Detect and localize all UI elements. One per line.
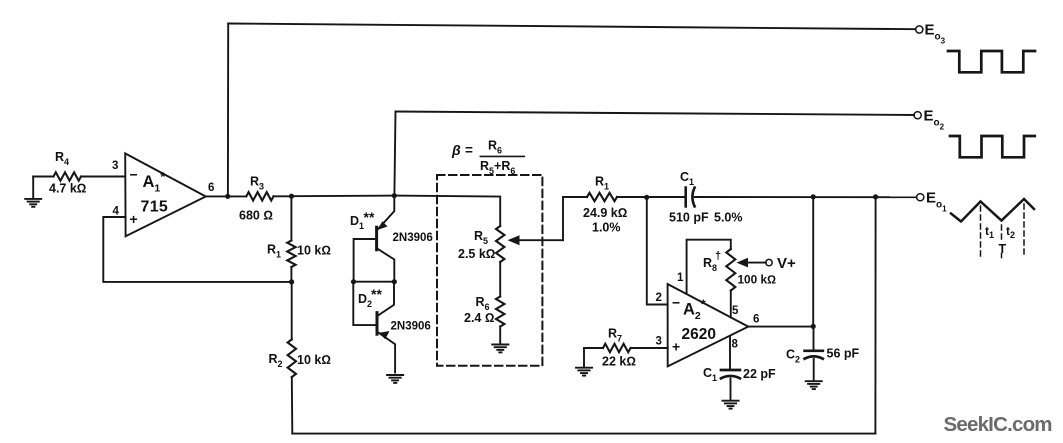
wire R2 down to bottom rail	[291, 377, 294, 434]
node B junction dot	[289, 279, 294, 284]
transistor Q2 D2 collector wire	[379, 282, 395, 316]
wire node J down to C2	[813, 326, 815, 350]
wire node J up to node H	[812, 197, 814, 327]
capacitor C1 510pF left plate	[684, 188, 687, 207]
svg-text:5: 5	[732, 305, 739, 317]
terminal Eo1	[917, 194, 924, 201]
transistor Q1 D1 2N3906 emitter wire	[379, 196, 395, 229]
transistor Q2 D2 base wire	[353, 282, 377, 325]
wire riser node D up to Eo2 line	[394, 112, 395, 196]
ground at R4 left	[25, 177, 41, 207]
waveform Eo2 square wave	[950, 136, 1035, 157]
node G junction dot	[644, 195, 649, 200]
capacitor C1 22pF bottom plate	[721, 376, 740, 378]
transistor Q2 D2 emitter wire	[378, 332, 395, 372]
ground at C2	[806, 381, 822, 389]
svg-text:β: β	[451, 142, 461, 158]
wire R1 to node B	[290, 267, 292, 282]
svg-text:+: +	[672, 339, 680, 355]
waveform Eo1 triangle wave	[951, 199, 1034, 222]
ground at R7	[576, 368, 592, 376]
svg-text:3: 3	[656, 336, 662, 348]
transistor Q1 D1 bar	[375, 227, 378, 250]
wire R7 ground stub	[583, 348, 585, 368]
node D junction dot	[392, 193, 397, 198]
wire C1 22pF to ground	[730, 379, 732, 401]
wire R3 to node C	[274, 195, 292, 197]
wire node B down to R2	[291, 282, 293, 340]
svg-text:2.4 Ω: 2.4 Ω	[464, 311, 494, 325]
wire A2 out to node J	[748, 326, 813, 328]
svg-text:C2: C2	[786, 348, 800, 365]
wire C2 to ground	[813, 359, 815, 381]
svg-text:SeekIC.com: SeekIC.com	[944, 413, 1052, 436]
wire bus node C to node D	[292, 195, 395, 198]
resistor R1 10k	[287, 241, 295, 268]
wire R7 to A2 pin3	[631, 347, 668, 349]
svg-text:3: 3	[112, 160, 118, 172]
svg-text:680 Ω: 680 Ω	[239, 209, 273, 223]
node A junction dot	[225, 194, 230, 199]
resistor R8 100k	[726, 249, 735, 291]
svg-text:R6: R6	[488, 139, 502, 156]
svg-text:R7: R7	[608, 327, 622, 344]
wire Eo3 top line	[228, 24, 915, 30]
node C junction dot	[289, 194, 294, 199]
arrowhead D1 emitter	[377, 221, 387, 230]
node H junction dot (C2 riser)	[811, 194, 816, 199]
svg-text:5.0%: 5.0%	[714, 211, 743, 225]
svg-text:**: **	[371, 286, 382, 302]
arrowhead D2 emitter	[379, 331, 390, 339]
resistor R4	[54, 172, 82, 180]
wire R6 to ground	[499, 327, 501, 345]
wire bottom rail	[292, 433, 875, 435]
wire wiper riser up to R1b	[562, 197, 564, 240]
ground at R6	[492, 345, 508, 353]
wire A2 pin1 up and over to R8 top	[687, 240, 731, 294]
wire bus into box to R5 top	[394, 196, 500, 226]
wire riser node A up to Eo3 line	[227, 24, 229, 197]
svg-text:R5: R5	[474, 229, 488, 246]
wire ground to R7	[584, 347, 603, 349]
svg-text:Eo3: Eo3	[925, 22, 946, 46]
svg-text:R3: R3	[250, 175, 264, 192]
capacitor C2 56pF top plate	[805, 349, 823, 352]
svg-text:6: 6	[753, 314, 759, 326]
wire A1 out to node A	[206, 195, 247, 197]
wire node C down to R1	[290, 196, 292, 240]
svg-text:2N3906: 2N3906	[391, 321, 431, 333]
wire right riser bottom rail to Eo1 line	[874, 197, 876, 434]
op-amp U2 A2 2620	[668, 284, 749, 366]
node J junction dot	[811, 324, 816, 329]
transistor Q1 D1 collector wire	[377, 249, 394, 282]
svg-text:R1: R1	[267, 243, 281, 260]
capacitor C1 510pF right plate	[692, 188, 694, 207]
resistor R6 2.4	[496, 297, 504, 327]
svg-text:=: =	[465, 143, 473, 158]
dashed box	[437, 175, 542, 366]
wire R5 to R6	[499, 262, 501, 297]
resistor R5 2.5k	[496, 226, 504, 262]
node E junction dot (bases)	[351, 279, 356, 284]
svg-text:R6: R6	[476, 295, 490, 312]
svg-text:−: −	[130, 167, 138, 183]
svg-text:Eo2: Eo2	[924, 108, 945, 132]
transistor Q2 D2 bar	[376, 313, 379, 335]
svg-text:510 pF: 510 pF	[669, 211, 709, 225]
svg-text:10 kΩ: 10 kΩ	[297, 244, 331, 258]
svg-text:2N3906: 2N3906	[393, 232, 433, 244]
dashed marker t end	[1023, 204, 1025, 256]
wire crossbar E to F	[354, 281, 395, 283]
ground at C1 22pF	[723, 401, 739, 409]
svg-text:10 kΩ: 10 kΩ	[297, 353, 331, 367]
wire ground to R4	[33, 176, 53, 178]
wiper arrow into R5	[517, 239, 563, 241]
svg-text:6: 6	[208, 182, 214, 194]
wire R1b to node G	[617, 196, 686, 198]
wire Eo2 top line	[396, 112, 915, 116]
wire R8 bottom to A2 pin5	[730, 291, 732, 318]
svg-text:4: 4	[113, 206, 120, 218]
wire node G down to A2 pin2	[647, 197, 668, 304]
svg-text:22 pF: 22 pF	[743, 367, 776, 381]
svg-text:t2: t2	[1006, 224, 1015, 240]
svg-text:4.7 kΩ: 4.7 kΩ	[49, 182, 86, 196]
svg-text:C1: C1	[680, 170, 694, 187]
dashed marker t start	[980, 206, 982, 256]
ground at D2 emitter	[387, 375, 403, 383]
svg-text:56 pF: 56 pF	[827, 347, 860, 361]
svg-text:t1: t1	[985, 224, 994, 240]
svg-text:1: 1	[677, 272, 684, 284]
svg-text:D2: D2	[358, 292, 372, 309]
svg-text:R5+R6: R5+R6	[480, 159, 515, 176]
svg-text:1.0%: 1.0%	[592, 221, 621, 235]
wire R4 to A1 pin3	[81, 176, 125, 178]
svg-text:**: **	[364, 209, 375, 225]
node F junction dot (D1 collector)	[392, 279, 397, 284]
svg-text:8: 8	[732, 339, 739, 351]
svg-text:T: T	[999, 242, 1007, 256]
V+ terminal and arrow into R8	[741, 262, 766, 264]
resistor R3	[246, 192, 273, 200]
svg-text:100 kΩ: 100 kΩ	[738, 273, 777, 287]
svg-text:22 kΩ: 22 kΩ	[602, 355, 636, 369]
waveform Eo3 square wave	[948, 51, 1035, 72]
resistor R7 22k	[603, 344, 631, 352]
svg-text:A2*: A2*	[683, 297, 707, 323]
resistor R1b 24.9k	[587, 193, 617, 201]
svg-text:R2: R2	[269, 352, 283, 369]
svg-text:24.9 kΩ: 24.9 kΩ	[583, 206, 627, 220]
svg-text:−: −	[672, 295, 680, 311]
svg-text:D1: D1	[350, 214, 364, 231]
svg-text:A1*: A1*	[143, 169, 167, 195]
svg-text:2.5 kΩ: 2.5 kΩ	[458, 247, 495, 261]
op-amp U1 A1 715	[125, 153, 206, 236]
svg-text:Eo1: Eo1	[926, 190, 947, 214]
wire A2 pin8 down to C1 22pF	[729, 336, 731, 370]
resistor R2 10k	[288, 339, 296, 377]
dashed marker t mid	[1001, 225, 1003, 242]
wire A1 pin4 feedback to node B	[103, 217, 291, 282]
wire C1 to Eo1 terminal	[695, 196, 917, 198]
terminal Eo3	[916, 26, 923, 33]
svg-text:2620: 2620	[682, 326, 716, 343]
svg-text:V+: V+	[777, 255, 796, 272]
svg-text:715: 715	[141, 199, 169, 216]
svg-text:R1: R1	[595, 175, 609, 192]
terminal Eo2	[914, 112, 921, 119]
svg-text:2: 2	[656, 292, 662, 304]
svg-text:†: †	[715, 250, 721, 262]
node I junction dot (right riser)	[873, 194, 878, 199]
transistor Q1 D1 base wire	[354, 239, 377, 282]
capacitor C1 22pF top plate	[721, 369, 740, 372]
svg-text:R4: R4	[55, 150, 69, 167]
svg-text:C1: C1	[703, 366, 717, 383]
capacitor C2 56pF bottom plate	[805, 356, 823, 358]
svg-text:+: +	[130, 211, 138, 227]
